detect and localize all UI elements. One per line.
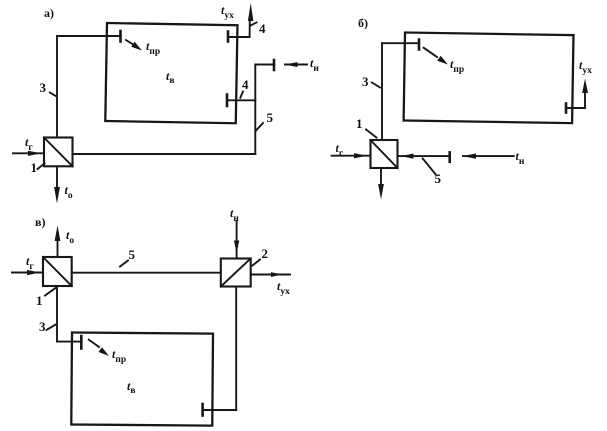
wire outdoor horizontal A (255, 64, 274, 66)
supply terminal A (tick) (119, 31, 122, 42)
heat exchanger 2 V (box) (221, 259, 251, 287)
exhaust arrow V (up, t_o) (55, 226, 61, 258)
svg-text:1: 1 (36, 293, 43, 308)
wire return vertical V (235, 287, 237, 411)
svg-text:б): б) (358, 16, 368, 30)
svg-text:1: 1 (356, 116, 363, 131)
supply jet arrow A (126, 40, 142, 51)
label 4 lower with leader (240, 77, 249, 98)
label 5 V with leader (120, 247, 136, 267)
room B (404, 33, 574, 124)
hot air inlet arrow A (13, 151, 44, 156)
wire return horizontal V (203, 409, 237, 411)
svg-text:2: 2 (262, 246, 269, 261)
room V (71, 333, 213, 426)
wire exhaust horizontal B (566, 107, 585, 109)
hot air inlet arrow V (12, 270, 43, 275)
supply terminal B (tick) (418, 40, 421, 50)
svg-text:3: 3 (362, 74, 369, 89)
label 1 B with leader (356, 116, 377, 138)
outdoor air arrow B (pointing left) (462, 154, 514, 159)
label 1 V with leader (36, 288, 56, 308)
outdoor air arrow A (pointing left) (284, 62, 307, 67)
wire mixed air horizontal A (73, 153, 256, 155)
return terminal V (tick) (201, 404, 204, 416)
svg-text:4: 4 (259, 21, 266, 36)
svg-text:5: 5 (435, 171, 442, 186)
wire duct 3 vertical V (56, 286, 58, 342)
label 5 B with leader (423, 159, 442, 187)
room A (105, 23, 237, 123)
outdoor air arrow V (down into box 2) (234, 221, 239, 259)
wire supply vertical B (duct 3) (381, 43, 383, 140)
cooled air outlet arrow B (down) (378, 168, 384, 200)
mixing terminal B (tick) (448, 152, 451, 161)
label 3 B with leader (362, 74, 380, 89)
wire exhaust vertical B with up arrow (582, 79, 588, 109)
supply jet arrow V (89, 340, 109, 356)
wire mixed air B with arrowhead to box (398, 154, 449, 159)
label 1 A with leader (31, 160, 45, 175)
exhaust arrowhead A (up) (248, 3, 254, 21)
svg-text:3: 3 (40, 80, 47, 95)
label 3 V with leader (39, 319, 57, 334)
heat exchanger 1 B (box) (371, 140, 398, 168)
outdoor terminal A (tick) (273, 60, 276, 70)
cooled air outlet arrow A (down, t_o) (54, 166, 60, 203)
svg-text:3: 3 (39, 319, 46, 334)
supply terminal V (tick) (80, 336, 83, 349)
exhaust arrow V (right, t_ux) (251, 272, 290, 277)
label 5 A with leader (256, 110, 274, 131)
supply jet arrow B (424, 48, 448, 65)
label 3 A with leader (40, 80, 57, 97)
wire supply horizontal A (57, 35, 120, 37)
wire exhaust vertical A (249, 19, 251, 37)
svg-text:4: 4 (242, 77, 249, 92)
wire supply horizontal B (382, 42, 418, 44)
svg-text:в): в) (35, 215, 45, 229)
heat exchanger 1 A (box) (44, 138, 73, 167)
wire duct 5 V (72, 272, 221, 274)
wire mixing vertical A (duct 5) (254, 65, 256, 155)
heat exchanger 1 V (box) (43, 257, 72, 286)
wire supply vertical A (duct 3) (56, 36, 58, 138)
svg-text:а): а) (44, 6, 54, 20)
svg-text:5: 5 (129, 247, 136, 262)
svg-text:5: 5 (267, 110, 274, 125)
wire duct 3 horizontal V (57, 341, 80, 343)
recirculation terminal A (tick) (226, 95, 229, 107)
exhaust terminal B (tick) (565, 104, 568, 113)
wire exhaust horizontal A (228, 36, 250, 38)
svg-text:1: 1 (31, 160, 38, 175)
wire recirculation horizontal A (227, 99, 255, 101)
exhaust terminal A (tick) (227, 32, 230, 42)
label 2 V with leader (253, 246, 269, 266)
label 4 top with leader (251, 21, 267, 36)
hot air inlet arrow B (332, 153, 371, 158)
